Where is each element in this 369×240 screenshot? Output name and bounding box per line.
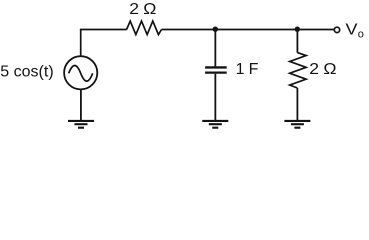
wire capacitor to ground (214, 74, 216, 121)
svg-text:5 cos(t): 5 cos(t) (0, 64, 53, 81)
svg-text:1: 1 (236, 61, 245, 78)
svg-text:F: F (249, 61, 259, 78)
svg-text:Ω: Ω (323, 60, 336, 78)
svg-text:o: o (358, 29, 364, 41)
svg-text:2: 2 (129, 0, 139, 18)
ground (resistor branch) (284, 121, 310, 128)
node B junction dot (295, 27, 300, 32)
wire source top to top rail corner (80, 30, 82, 57)
resistor R2 2 ohm shunt (290, 53, 306, 88)
wire top rail left segment (80, 29, 127, 31)
wire top rail right segment (162, 29, 335, 31)
wire node A down to capacitor (214, 30, 216, 67)
voltage source VS (sinusoidal) (64, 56, 97, 89)
node A junction dot (213, 27, 218, 32)
capacitor C1 plates (205, 67, 227, 72)
wire source bottom to ground (80, 90, 82, 121)
svg-text:Ω: Ω (143, 0, 156, 18)
svg-text:2: 2 (309, 60, 319, 78)
wire resistor R2 to ground (296, 88, 298, 121)
resistor R1 2 ohm series (127, 21, 162, 34)
svg-text:V: V (346, 20, 359, 38)
output terminal Vo open circle (334, 27, 339, 32)
wire node B down to resistor R2 (296, 30, 298, 53)
ground (source branch) (68, 121, 94, 128)
ground (capacitor branch) (202, 121, 228, 128)
